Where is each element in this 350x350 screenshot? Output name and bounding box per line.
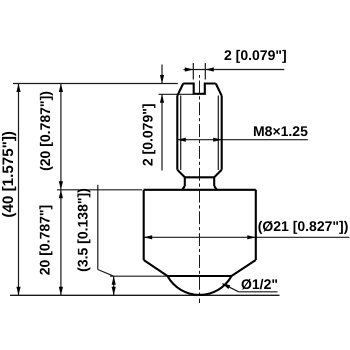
stud side right (thread major) bbox=[221, 96, 223, 170]
stud bottom chamfer left bbox=[177, 170, 185, 178]
dimension line: (20) and 20 shared vertical bbox=[60, 84, 62, 296]
arrowhead: (20) dim bottom bbox=[59, 181, 63, 190]
stud side left (thread major) bbox=[176, 96, 178, 170]
body side right bbox=[255, 190, 257, 260]
arrowhead: M8 left bbox=[177, 138, 186, 142]
svg-text:(20 [0.787"]): (20 [0.787"]) bbox=[37, 91, 53, 171]
dimension line: M8 thread with leader to label bbox=[177, 139, 307, 141]
arrowhead: dia21 left bbox=[144, 235, 153, 239]
neck flare left bbox=[183, 186, 185, 189]
svg-text:(3.5 [0.138"]): (3.5 [0.138"]) bbox=[75, 188, 91, 272]
neck flare right bbox=[214, 186, 216, 189]
dimension line: left 2 (slot depth) upper shaft bbox=[161, 65, 163, 84]
body bottom chamfer left bbox=[144, 260, 168, 276]
arrowhead: 20 dim bottom bbox=[59, 287, 63, 296]
leader line: O1/2 diagonal to ball bbox=[223, 284, 239, 292]
ball tip arc bbox=[168, 276, 232, 295]
extension line: baseline at bottom of ball tip bbox=[10, 294, 280, 296]
leader line: 3.5 bend bbox=[98, 270, 114, 277]
arrowhead: slot depth 2 top bbox=[160, 75, 164, 84]
extension line: slot bottom, left of stud bbox=[159, 93, 194, 95]
neck side right bbox=[213, 177, 215, 186]
arrowhead: dia21 right bbox=[247, 235, 256, 239]
extension line: top of body bbox=[57, 189, 142, 191]
stud top chamfer right bbox=[216, 84, 222, 96]
centerline bbox=[199, 75, 201, 303]
dimension line: 3.5 vertical bbox=[113, 276, 115, 295]
dimension line: left 2 (slot depth) lower tail bbox=[161, 94, 163, 170]
body top face bbox=[144, 189, 256, 191]
leader line: 3.5 text vertical tail bbox=[97, 185, 99, 270]
stud bottom chamfer right bbox=[214, 170, 222, 178]
arrowhead: (20) dim top bbox=[59, 84, 63, 93]
dimension line: diameter 21 with leader to label bbox=[144, 236, 350, 238]
arrowhead: slot width 2 right bbox=[205, 67, 214, 71]
arrowhead: M8 right bbox=[213, 138, 222, 142]
svg-text:(Ø21 [0.827"]): (Ø21 [0.827"]) bbox=[258, 218, 349, 234]
neck shoulder line bbox=[185, 176, 214, 178]
arrowhead: O1/2 leader bbox=[222, 283, 231, 289]
arrowhead: 40 dim bottom bbox=[16, 287, 20, 296]
neck side left bbox=[184, 177, 186, 186]
body bottom chamfer right bbox=[232, 260, 256, 276]
svg-text:Ø1/2": Ø1/2" bbox=[241, 276, 278, 292]
svg-text:2 [0.079"]: 2 [0.079"] bbox=[224, 47, 287, 63]
svg-text:M8×1.25: M8×1.25 bbox=[253, 123, 308, 139]
leader line: O1/2 underline bbox=[239, 291, 278, 293]
arrowhead: 20 dim top bbox=[59, 190, 63, 199]
thread minor diameter line left bbox=[180, 96, 182, 171]
extension line: slot width right bbox=[204, 63, 206, 80]
svg-text:20 [0.787"]: 20 [0.787"] bbox=[36, 205, 52, 275]
arrowhead: slot depth 2 bottom bbox=[160, 94, 164, 103]
extension line: bottom face for 3.5 dim bbox=[110, 275, 168, 277]
extension line: top of stud bbox=[13, 83, 178, 85]
extension line: slot width left bbox=[192, 63, 194, 80]
arrowhead: 3.5 dim top bbox=[112, 276, 116, 285]
svg-text:2 [0.079"]: 2 [0.079"] bbox=[139, 103, 155, 166]
thread minor diameter line right bbox=[217, 96, 219, 171]
dimension line: top 2 (slot width) bbox=[184, 69, 285, 71]
body side left bbox=[143, 190, 145, 260]
body bottom face bbox=[168, 275, 232, 277]
dimension line: 40 [1.575"] vertical bbox=[18, 84, 20, 296]
stud top chamfer left bbox=[177, 84, 183, 96]
arrowhead: 3.5 dim bottom bbox=[112, 287, 116, 296]
arrowhead: slot width 2 left bbox=[185, 67, 194, 71]
arrowhead: 40 dim top bbox=[16, 84, 20, 93]
stud top face with screwdriver slot bbox=[183, 84, 216, 94]
svg-text:(40 [1.575"]): (40 [1.575"]) bbox=[0, 131, 17, 218]
